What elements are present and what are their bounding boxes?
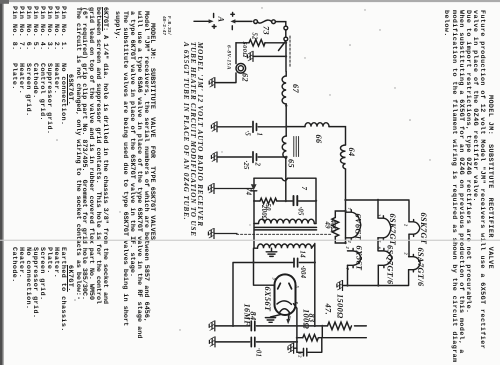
svg-text:12: 12 bbox=[298, 353, 303, 359]
svg-text:67: 67 bbox=[291, 84, 300, 94]
svg-text:2: 2 bbox=[345, 246, 350, 250]
svg-text:16MF: 16MF bbox=[243, 304, 252, 327]
svg-text:47.: 47. bbox=[324, 303, 333, 316]
svg-text:·004: ·004 bbox=[299, 266, 306, 279]
svg-text:6SA7GT/6: 6SA7GT/6 bbox=[416, 248, 425, 288]
svg-text:2: 2 bbox=[254, 162, 261, 167]
svg-text:·01: ·01 bbox=[255, 348, 262, 357]
svg-text:1500Ω: 1500Ω bbox=[336, 294, 345, 319]
svg-text:83: 83 bbox=[307, 314, 316, 323]
svg-text:6-8V-15A: 6-8V-15A bbox=[226, 45, 232, 70]
svg-text:1: 1 bbox=[256, 133, 263, 137]
svg-text:6V6GT: 6V6GT bbox=[354, 214, 363, 241]
svg-text:2: 2 bbox=[377, 213, 382, 217]
svg-text:73: 73 bbox=[262, 26, 271, 35]
svg-text:62: 62 bbox=[241, 73, 250, 82]
svg-text:6SQ7GT/6: 6SQ7GT/6 bbox=[386, 245, 395, 285]
svg-text:74: 74 bbox=[245, 188, 252, 196]
svg-text:14: 14 bbox=[299, 251, 306, 259]
svg-text:·05: ·05 bbox=[297, 207, 304, 216]
svg-text:2: 2 bbox=[404, 252, 409, 256]
svg-text:6X56T: 6X56T bbox=[263, 287, 272, 313]
svg-text:·5: ·5 bbox=[244, 131, 251, 137]
svg-text:500Ω: 500Ω bbox=[241, 42, 248, 58]
svg-text:65: 65 bbox=[287, 159, 296, 168]
svg-text:2: 2 bbox=[404, 223, 409, 227]
svg-text:·25: ·25 bbox=[242, 161, 249, 170]
svg-text:7: 7 bbox=[300, 187, 307, 191]
svg-text:49: 49 bbox=[324, 221, 331, 230]
svg-text:8: 8 bbox=[377, 247, 382, 250]
svg-text:66: 66 bbox=[314, 135, 323, 145]
svg-text:6SK7GT: 6SK7GT bbox=[388, 214, 397, 246]
svg-text:A: A bbox=[217, 16, 226, 23]
svg-text:52: 52 bbox=[251, 33, 258, 41]
svg-text:64: 64 bbox=[347, 148, 356, 157]
svg-text:6X56T: 6X56T bbox=[355, 246, 364, 272]
svg-text:200Ω: 200Ω bbox=[260, 204, 267, 221]
